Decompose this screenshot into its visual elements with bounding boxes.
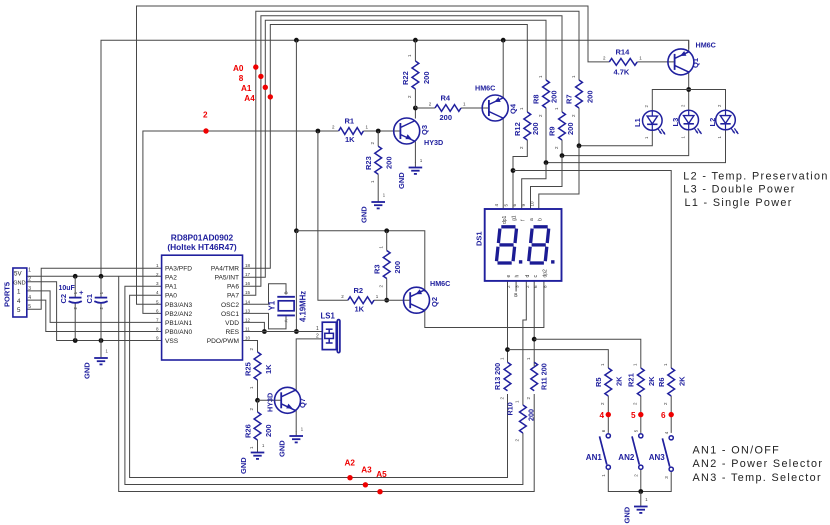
svg-text:R12: R12	[513, 122, 522, 136]
svg-text:14: 14	[245, 299, 251, 304]
svg-text:L3: L3	[671, 118, 680, 127]
resistor R11 200	[526, 357, 549, 400]
wire Q2 collector line	[296, 231, 424, 292]
junction R2/R3/Q2 base	[384, 298, 389, 303]
svg-text:PB3/AN3: PB3/AN3	[165, 302, 192, 309]
wire R3 bottom stub	[386, 279, 388, 301]
svg-text:GND: GND	[83, 362, 92, 379]
wire Q7 base stub	[258, 399, 282, 401]
wire R8 column to DS1 pin f	[522, 163, 546, 209]
wire net PA4 loop (MCU pin18 to R12)	[243, 25, 528, 269]
wire R2 right to Q2 base	[374, 299, 410, 301]
wire VDD drop upper	[295, 40, 297, 231]
svg-text:PA2: PA2	[165, 275, 177, 282]
svg-text:2K: 2K	[678, 376, 687, 386]
svg-text:10: 10	[245, 336, 251, 341]
svg-text:AN1: AN1	[586, 453, 603, 462]
svg-text:R21: R21	[627, 373, 636, 387]
svg-text:R25: R25	[244, 362, 253, 376]
resistor R10 200	[506, 400, 536, 442]
svg-text:200: 200	[531, 122, 540, 135]
wire ground stub	[640, 492, 642, 502]
wire L3 cathode to R9 line	[562, 130, 689, 156]
wire C2 body leads	[74, 276, 76, 340]
resistor R14 4.7K	[603, 48, 642, 77]
svg-text:R4: R4	[441, 94, 451, 103]
svg-text:4.7K: 4.7K	[614, 68, 630, 77]
connector PORT5	[3, 268, 32, 317]
svg-text:4: 4	[17, 298, 21, 305]
net marker 2	[203, 110, 209, 133]
wire net A3 (MCU pin3 to R10)	[125, 286, 523, 484]
svg-text:AN2 - Power Selector: AN2 - Power Selector	[693, 458, 824, 470]
ground symbol (R26)	[239, 443, 265, 474]
resistor R23 200	[364, 142, 394, 184]
net marker A5	[376, 470, 387, 494]
svg-text:200: 200	[440, 113, 453, 122]
svg-text:2: 2	[28, 277, 31, 283]
switch AN1	[586, 429, 611, 476]
wire L1 cathode to R7 line	[579, 108, 652, 146]
transistor Q4 HM6C	[475, 84, 518, 122]
svg-text:17: 17	[245, 272, 251, 277]
svg-text:VDD: VDD	[225, 320, 239, 327]
svg-text:1: 1	[28, 268, 31, 274]
svg-text:8: 8	[239, 74, 244, 83]
junction VDD drop/Q2 collector line	[294, 228, 299, 233]
svg-text:PDO/PWM: PDO/PWM	[207, 338, 239, 345]
speaker LS1	[316, 312, 340, 353]
wire switch commons to ground	[608, 469, 671, 491]
svg-text:h: h	[515, 275, 521, 278]
net marker A0	[233, 64, 259, 73]
svg-text:VSS: VSS	[165, 338, 179, 345]
svg-text:C2: C2	[59, 294, 68, 304]
svg-text:1K: 1K	[345, 135, 355, 144]
capacitor C2 10uF	[59, 285, 85, 310]
svg-text:9: 9	[521, 204, 526, 207]
svg-text:2: 2	[316, 334, 319, 340]
junction R25/R26/Q7 base	[255, 398, 260, 403]
svg-text:2K: 2K	[647, 376, 656, 386]
wire R14 to Q1 base	[637, 61, 674, 63]
wire R23 bottom to ground	[377, 174, 379, 197]
svg-text:+: +	[79, 288, 84, 297]
svg-text:2: 2	[506, 285, 511, 288]
svg-text:RES: RES	[225, 329, 239, 336]
wire DS1 h pin stub	[515, 281, 517, 292]
junction Q3 collector/R4/R22	[413, 106, 418, 111]
wire PORT5 pin5 to MCU pin1	[27, 268, 162, 309]
svg-text:5V: 5V	[14, 270, 22, 277]
svg-text:Q4: Q4	[509, 103, 518, 114]
junction DS1 c/R21 line	[532, 337, 537, 342]
svg-text:R26: R26	[244, 424, 253, 438]
wire Q7 emitter to ground	[295, 409, 297, 432]
svg-text:200: 200	[393, 261, 402, 274]
svg-text:2: 2	[525, 285, 530, 288]
svg-text:A2: A2	[345, 458, 356, 467]
svg-text:PB2/AN2: PB2/AN2	[165, 311, 192, 318]
svg-text:a: a	[529, 218, 535, 221]
svg-text:RD8P01AD0902: RD8P01AD0902	[171, 233, 234, 243]
wire R21 bottom to AN2	[640, 396, 642, 433]
legend switch functions	[693, 445, 824, 484]
wire R1 to Q3 base	[363, 130, 400, 132]
resistor R22 200	[401, 54, 431, 98]
net marker A3	[361, 466, 372, 488]
wire net PA6 loop (MCU pin16 to R9)	[243, 16, 563, 287]
svg-text:B: B	[284, 291, 289, 294]
wire DS1 d pin to R10	[523, 281, 526, 405]
wire C1 body leads	[100, 276, 102, 340]
net marker A1	[241, 84, 268, 93]
svg-text:GND: GND	[278, 440, 287, 457]
svg-text:AN2: AN2	[618, 453, 635, 462]
resistor R25 1K	[244, 348, 274, 390]
svg-text:A0: A0	[233, 64, 244, 73]
svg-text:L1 - Single Power: L1 - Single Power	[685, 197, 793, 209]
net marker 4	[600, 411, 612, 420]
svg-text:200: 200	[385, 156, 394, 169]
svg-text:1: 1	[156, 263, 159, 268]
svg-text:R23: R23	[364, 156, 373, 170]
svg-text:R9: R9	[548, 126, 557, 136]
wire net PA5 loop (MCU pin17 to R8)	[243, 20, 547, 277]
junction C1 top	[99, 274, 104, 279]
resistor R2 1K	[341, 286, 379, 314]
switch AN2	[618, 429, 643, 476]
wire OSC1 to crystal	[243, 313, 287, 329]
svg-text:R14: R14	[616, 48, 631, 57]
svg-text:L3 - Double Power: L3 - Double Power	[683, 184, 795, 196]
resistor R6 2K	[657, 363, 687, 405]
wire R22 bottom stub	[414, 89, 416, 108]
svg-text:GND: GND	[360, 206, 369, 223]
svg-text:7: 7	[156, 317, 159, 322]
svg-text:R10: R10	[506, 402, 515, 415]
svg-text:PB0/AN0: PB0/AN0	[165, 329, 192, 336]
svg-text:dp2: dp2	[543, 269, 549, 278]
LED L1	[633, 105, 665, 140]
svg-text:R5: R5	[594, 377, 603, 387]
wire Q1 collector down	[688, 72, 690, 110]
svg-text:PA5/INT: PA5/INT	[215, 275, 239, 282]
wire R9 column to DS1 pin a	[531, 156, 563, 209]
wire PORT5 pin2 to MCU pin9 (GND)	[27, 282, 162, 341]
svg-text:1: 1	[17, 289, 21, 296]
wire net PA7 loop (MCU pin15 to R7)	[243, 11, 580, 295]
wire R6 bottom to AN3	[670, 396, 672, 433]
svg-text:11: 11	[245, 326, 250, 331]
IC U1 pin labels	[156, 263, 251, 345]
svg-text:R22: R22	[401, 71, 410, 85]
resistor R21 2K	[627, 363, 657, 405]
svg-text:PA1: PA1	[165, 284, 177, 291]
svg-text:16: 16	[245, 281, 251, 286]
svg-text:200: 200	[264, 424, 273, 437]
net marker A4	[244, 94, 273, 103]
svg-text:200: 200	[586, 90, 595, 103]
display DS1 (dual 7-segment)	[475, 201, 562, 288]
svg-text:R3: R3	[373, 264, 382, 274]
svg-text:10uF: 10uF	[59, 285, 76, 292]
svg-text:dp1: dp1	[502, 215, 508, 224]
resistor R9 200	[548, 107, 576, 149]
svg-text:R7: R7	[565, 94, 574, 104]
wire OSC2 to crystal	[243, 284, 287, 305]
svg-text:Q1: Q1	[691, 58, 700, 68]
wire R25 bottom stub	[257, 380, 259, 400]
junction 5V/VDD drop	[294, 38, 299, 43]
svg-text:OSC2: OSC2	[221, 302, 239, 309]
svg-text:6: 6	[661, 411, 666, 420]
svg-text:5: 5	[504, 204, 509, 207]
svg-text:13: 13	[245, 308, 251, 313]
resistor R7 200	[565, 75, 595, 117]
net marker 6	[661, 411, 674, 420]
svg-text:AN3 - Temp. Selector: AN3 - Temp. Selector	[693, 472, 822, 484]
resistor R4 200	[429, 94, 466, 123]
svg-text:3: 3	[156, 281, 159, 286]
junction C2 bottom	[73, 338, 78, 343]
wire PORT5 pin3 to MCU pin7	[27, 291, 162, 323]
svg-text:Q3: Q3	[420, 125, 429, 135]
wire Q7 collector to LS1 pin2	[296, 339, 322, 392]
svg-text:GND: GND	[623, 506, 632, 523]
svg-text:10: 10	[529, 201, 534, 207]
svg-text:(Holtek HT46R47): (Holtek HT46R47)	[167, 242, 237, 252]
legend LED functions	[683, 171, 828, 210]
wire Q3 collector	[414, 108, 416, 119]
svg-text:A1: A1	[241, 84, 252, 93]
wire GND stub below C1	[100, 341, 102, 355]
svg-text:R13 200: R13 200	[493, 363, 502, 390]
wire R12 column to DS1 pin g1	[513, 140, 527, 209]
svg-text:5: 5	[631, 411, 636, 420]
svg-text:A: A	[284, 319, 289, 322]
IC U1 RD8P01AD0902 box	[162, 233, 243, 360]
svg-text:6: 6	[512, 204, 517, 207]
wire net A5 (MCU pin2 column to DS1)	[119, 276, 535, 491]
svg-text:6: 6	[533, 285, 538, 288]
svg-text:4: 4	[494, 204, 499, 207]
wire DS1 c pin down	[533, 281, 535, 366]
wire PDO/PWM to R25	[243, 341, 258, 353]
svg-text:HY3D: HY3D	[424, 138, 443, 147]
svg-text:PB1/AN1: PB1/AN1	[165, 320, 192, 327]
svg-text:4: 4	[600, 411, 605, 420]
svg-text:HM6C: HM6C	[475, 84, 495, 93]
LED L3	[671, 104, 702, 139]
svg-text:8: 8	[543, 285, 548, 288]
junction 5V/Q4	[501, 38, 506, 43]
wire R7 column to DS1 pin b	[539, 146, 579, 209]
svg-text:PA6: PA6	[227, 284, 239, 291]
svg-text:PA0: PA0	[165, 293, 177, 300]
junction 5V/R22	[413, 38, 418, 43]
svg-text:5: 5	[28, 304, 31, 310]
svg-text:Q2: Q2	[430, 297, 439, 307]
junction C1 bottom/GND tap	[99, 338, 104, 343]
svg-text:6: 6	[156, 308, 159, 313]
wire R22 top stub	[414, 40, 416, 61]
wire 5V rail	[101, 40, 689, 276]
svg-text:Y1: Y1	[268, 300, 277, 310]
junction net2/R2 drop	[316, 129, 321, 134]
svg-text:A3: A3	[361, 466, 372, 475]
wire R5 bottom to AN1	[607, 396, 609, 433]
ground symbol (Q3)	[397, 158, 423, 189]
wire R3 top stub	[386, 231, 388, 251]
ground symbol (C1/VSS)	[83, 349, 109, 380]
svg-text:R1: R1	[345, 117, 355, 126]
svg-text:GND: GND	[397, 172, 406, 189]
svg-text:4: 4	[156, 290, 159, 295]
resistor R3 200	[373, 246, 403, 288]
wire R23 top stub	[377, 131, 379, 146]
svg-text:AN3: AN3	[649, 453, 666, 462]
junction R12 column/AN3 line	[511, 168, 516, 173]
svg-text:LS1: LS1	[321, 312, 336, 321]
svg-text:GND: GND	[239, 457, 248, 474]
svg-text:R11 200: R11 200	[540, 363, 549, 390]
svg-text:200: 200	[527, 409, 536, 421]
wire g1 line to AN3 column	[513, 171, 671, 369]
svg-text:Q7: Q7	[298, 398, 307, 408]
wire net 2 drop to R2	[318, 131, 348, 300]
wire Q4 collector to DS1 pin a4	[502, 119, 504, 210]
svg-text:R8: R8	[532, 94, 541, 104]
svg-text:R6: R6	[657, 377, 666, 387]
ground symbol (switches)	[623, 497, 649, 524]
svg-text:A4: A4	[244, 94, 255, 103]
wire DS1 e pin to R13	[507, 281, 509, 363]
svg-text:HM6C: HM6C	[430, 279, 450, 288]
wire Q2 emitter to DS1 pin c2	[425, 281, 544, 328]
resistor R12 200	[513, 107, 540, 149]
svg-text:1K: 1K	[264, 364, 273, 374]
resistor R26 200	[244, 408, 274, 450]
svg-text:HM6C: HM6C	[696, 41, 716, 50]
wire R26 top stub	[257, 400, 259, 412]
svg-text:9: 9	[156, 336, 159, 341]
svg-text:200: 200	[422, 71, 431, 84]
svg-text:2: 2	[156, 272, 159, 277]
wire PORT5 pin4 to MCU pin8	[27, 300, 162, 331]
svg-text:L2: L2	[708, 118, 717, 127]
svg-text:L2 - Temp. Preservation: L2 - Temp. Preservation	[683, 171, 828, 183]
junction C2 top	[73, 274, 78, 279]
wire LED anode rail	[652, 90, 725, 111]
wire AN2 common	[640, 469, 642, 491]
svg-text:15: 15	[245, 290, 251, 295]
wire PORT5 pin1 to MCU pin2 (5V)	[27, 275, 162, 277]
wire Q4 emitter up	[502, 40, 504, 97]
switch AN3	[649, 431, 674, 478]
wire VDD drop lower	[295, 231, 297, 332]
wire net 2 (MCU pin6 to R1)	[143, 131, 339, 313]
wire R26 bottom stub	[257, 440, 259, 448]
svg-text:A5: A5	[376, 470, 387, 479]
wire R5 feed line	[508, 350, 609, 368]
svg-text:2K: 2K	[615, 376, 624, 386]
svg-text:L1: L1	[633, 118, 642, 127]
svg-text:18: 18	[245, 263, 251, 268]
junction R9 column/L3 line	[560, 153, 565, 158]
junction Q1/LED rail	[686, 87, 691, 92]
svg-text:5: 5	[156, 299, 159, 304]
svg-text:2: 2	[203, 110, 208, 119]
svg-text:PORT5: PORT5	[3, 282, 12, 307]
svg-text:4: 4	[28, 295, 31, 301]
svg-text:C1: C1	[85, 294, 94, 304]
svg-text:1: 1	[316, 326, 319, 332]
svg-text:AN1 - ON/OFF: AN1 - ON/OFF	[693, 445, 781, 457]
svg-text:PA3/PFD: PA3/PFD	[165, 266, 192, 273]
junction R7 column/L1 line	[577, 143, 582, 148]
svg-text:OSC1: OSC1	[221, 311, 239, 318]
junction VDD drop/RES line	[294, 329, 299, 334]
LED L2	[708, 104, 739, 139]
svg-text:DS1: DS1	[475, 231, 484, 246]
wire R21 feed line	[534, 339, 641, 368]
svg-text:PA7: PA7	[227, 293, 239, 300]
svg-text:g1: g1	[512, 215, 518, 221]
svg-text:e: e	[506, 275, 512, 278]
svg-text:12: 12	[245, 317, 251, 322]
resistor R13 200	[493, 357, 511, 400]
junction R3 top	[384, 228, 389, 233]
svg-text:200: 200	[550, 90, 559, 103]
wire Q3 emitter to ground	[414, 142, 416, 164]
wire R4 to Q4 base	[461, 107, 489, 109]
svg-text:3: 3	[515, 285, 520, 288]
junction DS1 e/R5 line	[505, 347, 510, 352]
svg-text:PA4/TMR: PA4/TMR	[211, 266, 239, 273]
resistor R8 200	[532, 75, 559, 117]
net label B (DS1 pin h)	[514, 293, 518, 299]
transistor Q7 HY3D	[266, 387, 308, 413]
svg-text:GND: GND	[13, 281, 25, 287]
transistor Q3 HY3D	[394, 118, 443, 147]
svg-text:R2: R2	[354, 286, 364, 295]
wire RES line to LS1 pin1	[243, 331, 323, 333]
net marker 8	[239, 74, 264, 83]
net marker A2	[345, 458, 356, 480]
transistor Q2 HM6C	[404, 279, 451, 313]
wire net A2 (MCU pin4 to R13)	[130, 295, 508, 477]
svg-text:b: b	[537, 218, 543, 221]
svg-text:4.19MHz: 4.19MHz	[299, 291, 308, 322]
wire L2 cathode to R8 line	[546, 108, 726, 163]
ground symbol (R23)	[360, 193, 386, 224]
resistor R1 1K	[332, 117, 369, 145]
ground symbol (Q7)	[278, 427, 304, 458]
net marker 5	[631, 411, 644, 420]
svg-text:1K: 1K	[355, 305, 365, 314]
transistor Q1 HM6C	[668, 41, 716, 75]
wire Q1 emitter up	[688, 40, 690, 51]
capacitor C1	[85, 291, 108, 309]
resistor R5 2K	[594, 363, 624, 405]
svg-text:8: 8	[156, 326, 159, 331]
wire R4 left stub	[415, 107, 435, 109]
svg-text:3: 3	[28, 286, 31, 292]
svg-text:200: 200	[566, 122, 575, 135]
wire VDD stub	[243, 322, 265, 331]
crystal Y1	[268, 291, 308, 323]
